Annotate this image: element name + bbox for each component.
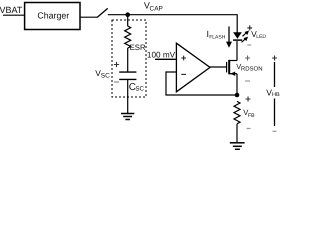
net label VCAP xyxy=(144,1,163,13)
wire inverting input feedback xyxy=(166,72,237,95)
svg-text:ESR: ESR xyxy=(130,43,146,52)
wire top rail xyxy=(108,15,237,33)
label VRDSON xyxy=(236,62,262,73)
polarity + (VFB) xyxy=(246,97,251,102)
wire CSC to ground xyxy=(127,79,129,113)
VHB annotation line upper xyxy=(274,62,276,87)
charger block xyxy=(25,3,80,30)
svg-text:RDSON: RDSON xyxy=(241,66,263,73)
polarity - (VRDSON) xyxy=(245,80,250,82)
wire charger to switch xyxy=(81,16,98,18)
svg-text:100 mV: 100 mV xyxy=(147,51,176,60)
current arrow IFLASH xyxy=(226,27,232,48)
node VCAP junction dot xyxy=(125,12,130,17)
svg-text:FB: FB xyxy=(248,113,255,119)
polarity - (VFB) xyxy=(247,128,251,130)
LED emission arrow 2 xyxy=(242,37,249,43)
svg-text:LED: LED xyxy=(256,34,266,40)
wire VCAP node into box xyxy=(127,15,129,27)
VHB annotation line lower xyxy=(274,99,276,127)
svg-text:SC: SC xyxy=(101,73,110,80)
LED D1 xyxy=(233,32,242,40)
label VFB xyxy=(243,108,255,119)
switch (open) xyxy=(97,8,107,17)
polarity - (VLED) xyxy=(247,44,251,46)
label IFLASH xyxy=(207,29,226,40)
net label VLED xyxy=(251,29,266,40)
wire op-amp output to gate xyxy=(210,66,227,68)
ground (supercap) xyxy=(121,114,134,120)
wire VFB to ground xyxy=(236,124,238,142)
polarity + (VHB) xyxy=(272,56,277,61)
svg-text:SC: SC xyxy=(135,86,144,93)
capacitor CSC xyxy=(119,72,136,79)
polarity - (CSC) xyxy=(114,81,119,83)
svg-text:CAP: CAP xyxy=(150,6,163,13)
polarity + (CSC) xyxy=(114,62,119,67)
net label VHB xyxy=(266,87,280,98)
svg-text:Charger: Charger xyxy=(37,10,69,20)
resistor ESR xyxy=(125,26,131,48)
wire 100mV reference to op-amp + input xyxy=(155,58,177,60)
polarity + (VRDSON) xyxy=(245,56,250,61)
label CSC xyxy=(129,82,145,93)
polarity - (VHB) xyxy=(273,130,277,132)
svg-text:VBAT: VBAT xyxy=(0,5,23,15)
svg-text:FLASH: FLASH xyxy=(209,34,226,40)
wire ESR to CSC xyxy=(127,48,129,72)
op-amp U1 xyxy=(176,43,210,92)
wire VBAT to charger xyxy=(3,14,24,16)
transistor Q1 NMOS xyxy=(227,41,237,95)
net label VSC xyxy=(95,68,110,80)
LED emission arrow 1 xyxy=(243,31,250,37)
node feedback junction dot xyxy=(235,93,240,98)
resistor VFB xyxy=(234,101,240,123)
supercap model dashed box xyxy=(112,20,146,97)
polarity + (VLED) xyxy=(247,25,252,30)
svg-text:HB: HB xyxy=(272,92,280,98)
ground (FB) xyxy=(230,143,245,150)
